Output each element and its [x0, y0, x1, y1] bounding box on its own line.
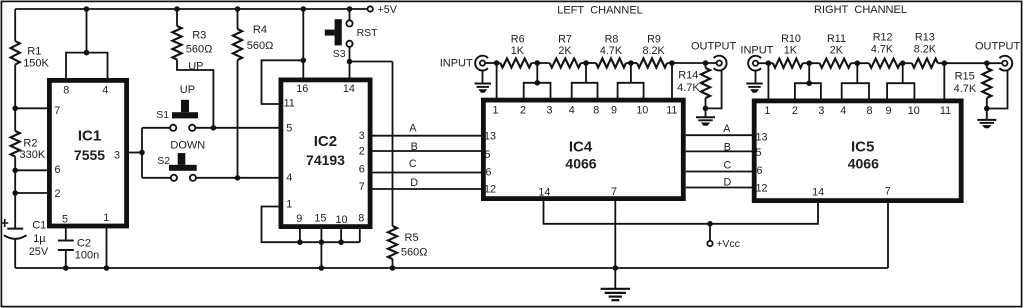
wire bracket pins 2 3 [536, 63, 538, 83]
svg-text:3: 3 [359, 130, 365, 142]
svg-text:14: 14 [343, 83, 355, 95]
svg-text:2: 2 [792, 105, 798, 117]
input jack left [475, 56, 488, 71]
analog switch IC5 4066 box [754, 101, 961, 201]
svg-text:11: 11 [940, 105, 951, 117]
wire IC2 pin 11 link [262, 60, 304, 104]
capacitor C2 [58, 241, 74, 251]
svg-text:R8: R8 [605, 34, 619, 46]
node pin6 junction [12, 168, 18, 174]
svg-text:INPUT: INPUT [740, 44, 773, 56]
wire IC4 pin 7 to ground bus [614, 201, 616, 269]
svg-text:1: 1 [492, 104, 498, 116]
resistor R13 [912, 59, 938, 68]
svg-text:R1: R1 [27, 46, 41, 58]
wire bracket pins 4 8 right [856, 63, 858, 83]
svg-text:UP: UP [188, 60, 203, 72]
wire input jack shell to ground right [755, 71, 757, 84]
svg-text:560Ω: 560Ω [247, 40, 274, 52]
switch S1 UP [181, 100, 189, 112]
wire R3 to S1 UP node [177, 60, 213, 128]
svg-text:150K: 150K [23, 57, 49, 69]
svg-text:S3: S3 [333, 48, 346, 60]
svg-text:4.7K: 4.7K [677, 82, 700, 94]
svg-text:7: 7 [885, 186, 891, 198]
ground input left [475, 83, 491, 85]
svg-text:R12: R12 [873, 32, 893, 44]
wire IC1 pin 6 [15, 169, 48, 171]
svg-text:4: 4 [286, 172, 292, 184]
svg-text:R4: R4 [253, 24, 267, 36]
svg-text:4.7K: 4.7K [954, 83, 977, 95]
wire S1 to IC2 pin 5 [195, 127, 279, 129]
wire IC1 pin 5 to C2 [65, 228, 67, 240]
terminal +5V [368, 6, 373, 11]
wire R9 to output [667, 62, 717, 64]
wire R11 R12 [851, 62, 869, 64]
resistor R5 [388, 226, 397, 259]
wire S3 node to R5 [350, 61, 393, 63]
svg-text:S1: S1 [156, 109, 169, 121]
svg-text:UP: UP [180, 84, 195, 96]
resistor R8 [596, 58, 626, 67]
svg-text:C: C [723, 160, 731, 172]
svg-text:R13: R13 [915, 32, 935, 44]
svg-text:12: 12 [484, 184, 496, 196]
svg-text:R11: R11 [827, 33, 846, 45]
svg-text:INPUT: INPUT [440, 58, 473, 70]
wire R5 to ground bus [392, 259, 394, 268]
wire IC1 pin 2 [15, 192, 48, 194]
wire R8 R9 [626, 62, 637, 64]
svg-text:RST: RST [357, 27, 379, 39]
ground main [614, 268, 616, 289]
svg-text:14: 14 [812, 187, 824, 199]
svg-text:C1: C1 [32, 220, 46, 232]
svg-text:R7: R7 [558, 34, 572, 46]
svg-text:1: 1 [286, 198, 292, 210]
wire input to R6 [485, 62, 500, 64]
resistor R12 [869, 59, 900, 68]
svg-text:100n: 100n [75, 250, 99, 262]
svg-text:15: 15 [314, 213, 326, 225]
svg-text:R3: R3 [192, 30, 206, 42]
wire bracket pins 2 3 right [808, 63, 810, 83]
svg-text:C: C [409, 158, 417, 170]
svg-text:B: B [411, 141, 418, 153]
op IC1 7555 box [49, 80, 126, 226]
svg-text:13: 13 [484, 131, 496, 143]
wire IC4 pin 11 stub [671, 63, 673, 98]
wire IC2 bottom to ground bus [320, 242, 322, 268]
wire S2 to IC2 pin 4 [196, 177, 279, 179]
svg-text:10: 10 [335, 214, 347, 226]
wire IC1 pin 7 [15, 107, 48, 109]
svg-text:RIGHT CHANNEL: RIGHT CHANNEL [814, 4, 907, 16]
wire +5V top rail [15, 8, 367, 10]
svg-text:1: 1 [764, 105, 770, 117]
wire bracket pins 9 10 [630, 63, 632, 83]
wire input jack shell to ground [482, 71, 484, 84]
output jack left [714, 56, 727, 71]
switch S3 RST [347, 6, 353, 12]
svg-text:4.7K: 4.7K [871, 44, 894, 56]
svg-text:+5V: +5V [378, 4, 398, 16]
wire R4 to S2 node [237, 60, 239, 178]
wire IC5 pin 1 stub [767, 63, 769, 99]
wire R5 vertical [392, 62, 394, 227]
svg-text:2: 2 [520, 104, 526, 116]
svg-text:13: 13 [755, 132, 767, 144]
svg-text:D: D [410, 177, 418, 189]
svg-text:6: 6 [756, 165, 762, 177]
wire R7 R8 [581, 62, 596, 64]
svg-text:IC2: IC2 [314, 133, 337, 150]
svg-text:IC5: IC5 [851, 139, 874, 156]
svg-text:5: 5 [755, 147, 761, 159]
svg-text:3: 3 [114, 149, 120, 161]
input jack right [748, 56, 761, 71]
wire C2 to ground bus [65, 250, 67, 268]
node pin2 junction [12, 190, 18, 196]
svg-text:2: 2 [359, 146, 365, 158]
resistor R11 [820, 59, 851, 68]
svg-text:DOWN: DOWN [170, 139, 205, 151]
svg-text:14: 14 [538, 187, 550, 199]
svg-text:D: D [723, 177, 731, 189]
svg-text:6: 6 [359, 163, 365, 175]
ground bus wire [15, 267, 888, 269]
svg-text:8: 8 [63, 85, 69, 97]
svg-text:R9: R9 [647, 34, 661, 46]
resistor R10 [773, 59, 803, 68]
wire output jack shell right [987, 70, 1008, 108]
wire net B IC2 to IC4 [373, 150, 482, 152]
resistor R9 [637, 58, 667, 67]
svg-text:4066: 4066 [848, 156, 879, 172]
svg-text:R5: R5 [405, 232, 419, 244]
svg-text:5: 5 [286, 122, 292, 134]
svg-text:R15: R15 [955, 71, 975, 83]
svg-text:4: 4 [569, 104, 575, 116]
ground R15 [986, 109, 988, 120]
switch S2 DOWN [178, 153, 186, 165]
wire IC2 pin 15 stub [320, 229, 322, 243]
resistor R1 [11, 41, 20, 65]
svg-text:330K: 330K [20, 149, 46, 161]
output jack right [999, 56, 1012, 71]
svg-text:10: 10 [636, 104, 648, 116]
svg-text:5: 5 [62, 214, 68, 226]
svg-text:16: 16 [296, 83, 308, 95]
svg-text:R10: R10 [781, 33, 801, 45]
svg-text:R14: R14 [678, 70, 698, 82]
svg-text:+Vcc: +Vcc [716, 238, 740, 250]
svg-text:5: 5 [484, 149, 490, 161]
svg-text:R6: R6 [511, 34, 525, 46]
wire R10 R11 [803, 62, 820, 64]
resistor R7 [550, 58, 581, 67]
svg-text:6: 6 [485, 167, 491, 179]
svg-text:IC4: IC4 [569, 139, 593, 156]
svg-text:3: 3 [546, 104, 552, 116]
svg-text:4.7K: 4.7K [600, 45, 623, 57]
resistor R6 [500, 58, 531, 67]
wire input to R10 [758, 62, 773, 64]
resistor R15 [984, 60, 990, 66]
wire IC1 pin 3 [129, 152, 142, 154]
svg-text:8.2K: 8.2K [642, 45, 665, 57]
svg-text:11: 11 [284, 98, 295, 110]
svg-text:C2: C2 [77, 238, 91, 250]
svg-text:4: 4 [840, 105, 846, 117]
wire IC4 pin 14 to Vcc rail [544, 201, 819, 224]
wire IC2 pin 9 stub [299, 229, 301, 243]
terminal +Vcc [707, 241, 712, 246]
svg-text:8.2K: 8.2K [914, 44, 937, 56]
wire net B IC4 to IC5 [686, 150, 753, 152]
wire IC5 pin 11 stub [943, 63, 945, 99]
svg-text:1µ: 1µ [33, 233, 46, 245]
wire IC2 pin 8 stub [359, 229, 361, 243]
svg-text:560Ω: 560Ω [401, 246, 428, 258]
wire net A IC4 to IC5 [686, 134, 753, 136]
svg-text:2K: 2K [830, 45, 844, 57]
svg-text:25V: 25V [29, 246, 49, 258]
wire R12 R13 [900, 62, 912, 64]
svg-text:A: A [409, 122, 417, 134]
wire bracket pins 9 10 right [902, 63, 904, 83]
resistor R2 [11, 131, 20, 157]
svg-text:OUTPUT: OUTPUT [975, 41, 1021, 53]
svg-text:560Ω: 560Ω [186, 44, 213, 56]
wire left rail upper [14, 9, 16, 41]
counter IC2 74193 box [281, 80, 370, 227]
svg-text:9: 9 [611, 104, 617, 116]
svg-text:LEFT CHANNEL: LEFT CHANNEL [557, 5, 643, 17]
svg-text:8: 8 [866, 105, 872, 117]
svg-text:1: 1 [103, 212, 109, 224]
svg-text:8: 8 [358, 213, 364, 225]
resistor R14 [703, 60, 709, 66]
wire net D IC4 to IC5 [686, 187, 753, 189]
wire IC2 pin 16 from rail [301, 6, 307, 12]
ground input right [746, 83, 762, 85]
svg-text:7: 7 [611, 186, 617, 198]
analog switch IC4 4066 box [483, 100, 683, 199]
wire S1 S2 left bus [141, 128, 143, 178]
svg-text:3: 3 [818, 105, 824, 117]
svg-text:OUTPUT: OUTPUT [691, 41, 737, 53]
svg-text:9: 9 [885, 105, 891, 117]
wire IC5 pin 7 to ground bus [887, 203, 889, 269]
svg-text:A: A [723, 123, 731, 135]
svg-text:2: 2 [54, 188, 60, 200]
svg-text:S2: S2 [157, 155, 170, 167]
svg-text:2K: 2K [558, 45, 572, 57]
wire IC2 pin 1 bottom link [262, 207, 360, 243]
wire IC1 pin 1 to ground bus [106, 228, 108, 268]
svg-text:8: 8 [593, 104, 599, 116]
resistor R3 [174, 6, 180, 12]
wire bracket pins 4 8 [585, 63, 587, 83]
svg-text:4066: 4066 [565, 156, 596, 172]
wire IC4 pin 1 stub [496, 63, 498, 98]
node +Vcc [707, 221, 713, 227]
IC1 top bracket wire pins 8 4 [84, 6, 90, 12]
svg-text:9: 9 [296, 213, 302, 225]
svg-text:R2: R2 [23, 137, 37, 149]
wire R1 to R2 [14, 65, 16, 132]
svg-text:7: 7 [359, 181, 365, 193]
wire net C IC2 to IC4 [373, 172, 482, 174]
wire net D IC2 to IC4 [373, 188, 482, 190]
wire output jack shell left [706, 70, 722, 108]
resistor R4 [235, 6, 241, 12]
svg-text:11: 11 [666, 104, 677, 116]
svg-text:12: 12 [755, 182, 767, 194]
svg-text:74193: 74193 [306, 152, 345, 168]
wire S3 to IC2 pin 14 [349, 47, 351, 78]
svg-text:IC1: IC1 [78, 128, 101, 145]
svg-text:7: 7 [54, 105, 60, 117]
node pin7 junction [12, 106, 18, 112]
wire C1 to ground bus [14, 239, 16, 268]
svg-text:B: B [724, 142, 731, 154]
svg-text:4: 4 [102, 85, 108, 97]
wire IC2 pin 10 stub [340, 229, 342, 243]
svg-text:1K: 1K [784, 45, 798, 57]
svg-text:6: 6 [54, 164, 60, 176]
wire R13 to output [938, 62, 1002, 64]
wire net A IC2 to IC4 [373, 135, 482, 137]
wire R6 R7 [531, 62, 549, 64]
svg-text:7555: 7555 [74, 147, 105, 163]
wire R2 to C1 [14, 157, 16, 229]
capacitor C1 [1, 219, 9, 227]
svg-text:1K: 1K [511, 45, 525, 57]
wire net C IC4 to IC5 [686, 171, 753, 173]
svg-text:10: 10 [908, 105, 920, 117]
ground R14 [705, 108, 707, 117]
